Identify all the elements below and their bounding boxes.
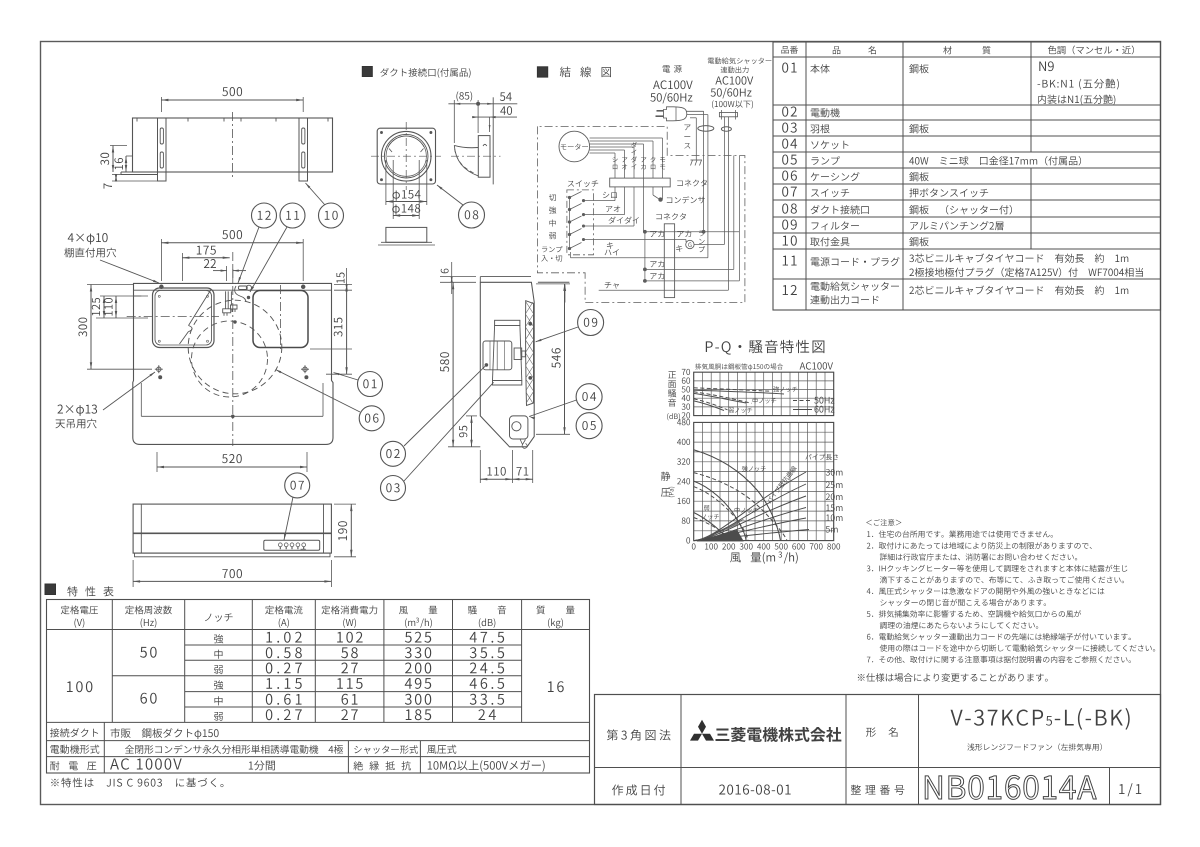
left opening inner flange — [155, 291, 212, 346]
duct heading — [362, 67, 372, 77]
dim 16 — [125, 156, 127, 172]
duct flange square — [377, 128, 435, 184]
connector bar 2 — [664, 224, 674, 298]
callout 09 — [578, 310, 604, 336]
pq chart — [693, 372, 695, 415]
duct shutter scoop — [454, 145, 478, 147]
power wires down — [703, 111, 705, 232]
dim 315 right — [310, 348, 352, 350]
lamp — [686, 240, 694, 248]
front bottom strip — [135, 553, 331, 557]
label 4xphi10 — [68, 233, 108, 244]
callout 04 — [576, 384, 602, 410]
duct cylinder below — [386, 227, 427, 242]
panel buttons — [278, 543, 282, 547]
curve convergence wedge — [697, 530, 744, 541]
label 2xphi13 — [57, 405, 97, 416]
motor shroud — [493, 326, 495, 381]
pq chart title — [706, 340, 825, 355]
left opening scroll wall — [189, 290, 212, 326]
control panel — [264, 540, 320, 550]
duct circles — [381, 131, 431, 181]
motor can — [483, 341, 512, 370]
condenser — [652, 187, 654, 195]
left opening corner dots — [158, 295, 160, 297]
dim 30 — [110, 145, 127, 147]
dim 175 — [181, 253, 183, 281]
power source labels — [663, 65, 682, 73]
power plug — [664, 107, 687, 121]
switch output wires — [584, 200, 616, 202]
plan centerline v2 — [279, 285, 281, 349]
unit boundary dash-dot — [537, 126, 745, 302]
cord bushing small — [721, 127, 731, 131]
mitsubishi logo — [690, 720, 714, 741]
callout 06 — [359, 406, 384, 431]
dim 110 — [115, 296, 117, 318]
dim 125 left — [100, 295, 148, 297]
dim 95 — [466, 415, 477, 417]
connector bar 1 — [610, 178, 671, 187]
dim 500 top — [160, 97, 162, 112]
callout 10 — [319, 203, 344, 228]
motor shaft — [514, 348, 522, 360]
ki wire switch to lamp — [584, 239, 687, 241]
ground symbol — [691, 159, 703, 161]
dim 15 right — [334, 284, 352, 286]
unit pointer — [538, 281, 570, 283]
callout 12 leader end — [238, 277, 241, 283]
dim 6 top — [440, 276, 476, 278]
side view outline — [480, 282, 534, 447]
duct side profile — [492, 97, 494, 184]
right opening — [253, 291, 308, 348]
dim 7 — [112, 174, 121, 176]
callout 01 — [358, 372, 383, 397]
motor top plate — [495, 320, 520, 325]
filter panel — [526, 301, 534, 406]
side top filter line — [480, 276, 531, 278]
plan inner fold line — [141, 415, 323, 417]
dim 500 plan — [160, 239, 162, 281]
callout 08 — [459, 202, 485, 228]
aka wire 1 — [645, 231, 740, 233]
duct side centerline — [451, 155, 501, 157]
dim 580 — [452, 282, 454, 447]
fan opening circle dashed — [188, 300, 282, 394]
plug wires — [687, 110, 704, 112]
switch labels — [549, 194, 556, 201]
cha wire — [599, 289, 729, 291]
duct dims — [385, 160, 387, 205]
spec table heading — [45, 584, 56, 595]
front view outline — [133, 504, 331, 553]
bracket front view — [133, 118, 333, 172]
duct corner marks — [380, 131, 382, 133]
bracket right rail — [299, 118, 308, 181]
motor — [559, 131, 590, 162]
lamp unit — [510, 416, 528, 439]
bracket left flange — [121, 171, 158, 173]
filter hatch — [526, 302, 533, 313]
switch box — [567, 190, 594, 255]
plan bracket line — [134, 289, 332, 291]
pq top curves — [694, 390, 784, 394]
dim 546 — [536, 283, 570, 285]
fan impeller circle dashed — [192, 321, 268, 397]
spec table — [47, 600, 590, 774]
left opening — [153, 288, 215, 348]
pipe resistance curves — [694, 472, 806, 541]
wire color labels vertical — [613, 157, 618, 169]
dim 22 — [226, 266, 228, 281]
duct centerlines — [371, 155, 441, 157]
hai wire — [570, 252, 572, 258]
callout 05 — [576, 413, 602, 439]
shutter wires down — [723, 117, 725, 245]
callout 02 — [381, 441, 406, 466]
notes — [866, 519, 901, 526]
bracket left rail — [158, 118, 167, 181]
plan centerline v — [232, 252, 234, 446]
plan top holes — [160, 285, 164, 289]
callout 07 — [285, 473, 310, 498]
switch contacts — [569, 198, 571, 249]
dim 110 71 bottom — [479, 450, 481, 483]
duct shutter arcs — [388, 136, 424, 147]
earth wire — [695, 118, 697, 160]
leader 02 to motor — [404, 365, 486, 446]
aka wire 2 — [645, 268, 734, 270]
motor wires — [590, 152, 615, 154]
right vert wires — [733, 156, 735, 270]
title block — [595, 695, 1161, 805]
cord entry parts — [238, 286, 247, 290]
shutter terminal — [719, 113, 737, 117]
red column — [643, 178, 645, 232]
dim 700 — [132, 560, 134, 587]
plan view outline — [133, 283, 333, 444]
bracket centerline — [232, 112, 234, 180]
aka wire 3 — [645, 280, 740, 282]
shutter output labels — [708, 57, 771, 64]
callout 12 — [252, 203, 277, 228]
parts table — [773, 42, 1161, 310]
duct side dims — [453, 100, 455, 143]
dim 190 — [334, 503, 356, 505]
wiring heading — [537, 67, 547, 77]
plan centerline h — [127, 316, 219, 318]
cord bushing big — [698, 126, 714, 132]
pq bottom curves — [694, 450, 781, 541]
dim 300 left — [90, 285, 92, 370]
leader 03 to motor case — [404, 382, 494, 481]
callout 11 — [280, 203, 305, 228]
dim 520 bottom — [156, 452, 158, 472]
mount holes — [155, 368, 163, 370]
callout 03 — [381, 476, 406, 501]
